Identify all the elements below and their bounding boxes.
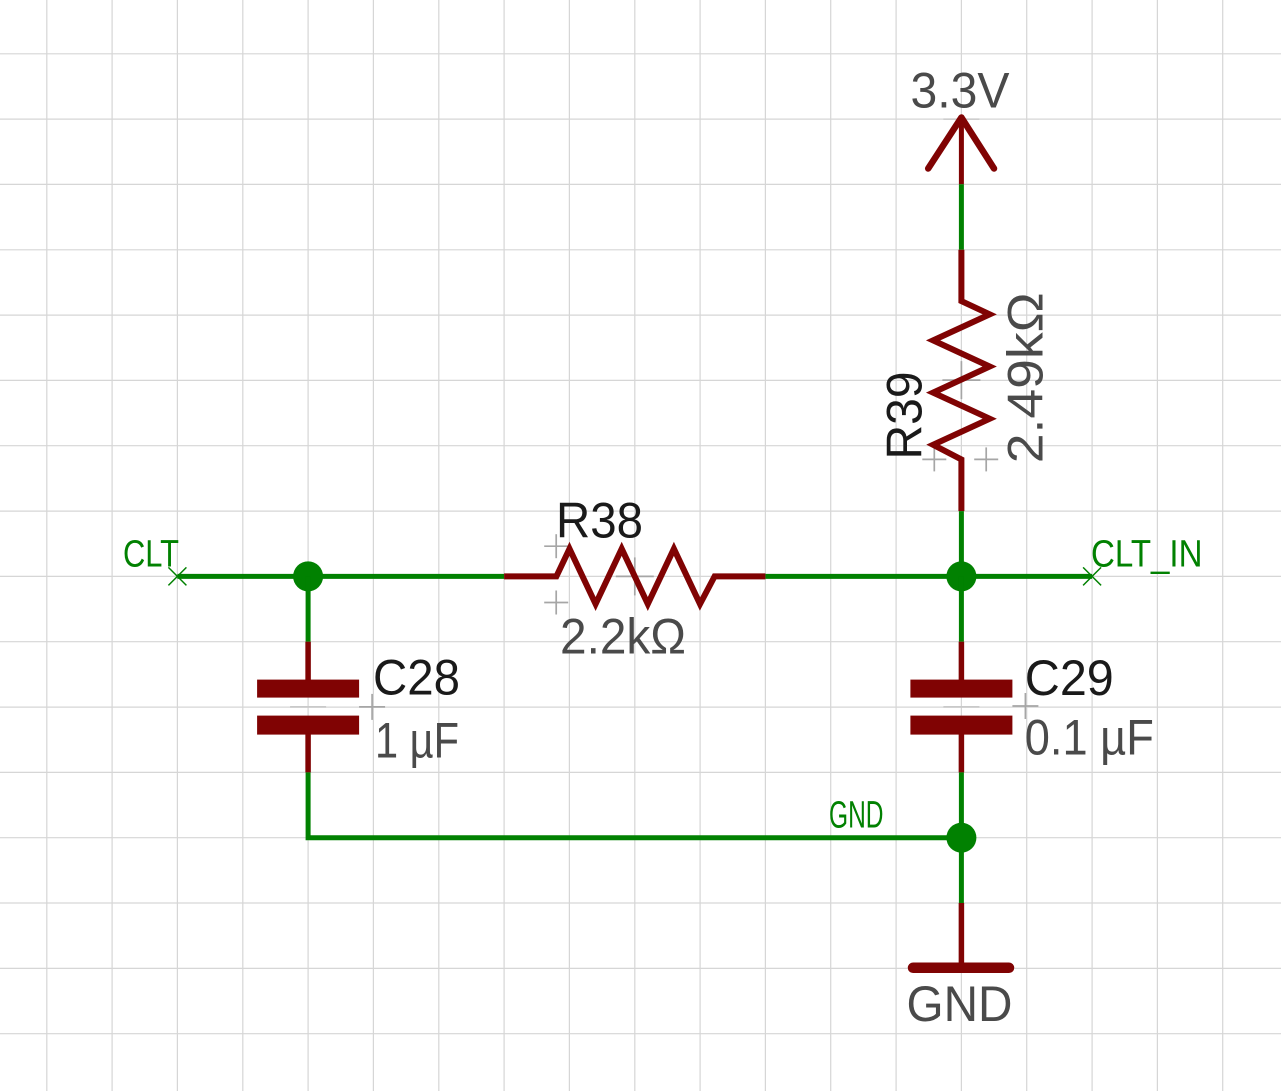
svg-text:GND: GND <box>907 976 1013 1032</box>
svg-text:R39: R39 <box>877 372 933 460</box>
capacitor C29 value label 0.1uF <box>1025 710 1154 766</box>
junction node GND <box>946 823 976 853</box>
wire CLT to R38 <box>177 574 504 579</box>
svg-text:C28: C28 <box>373 650 460 706</box>
capacitor C29 <box>910 680 1012 735</box>
capacitor C28 reference label C28 <box>373 650 460 706</box>
junction node CLT at C28 <box>293 561 323 591</box>
capacitor C28 anchor crosses <box>290 694 385 720</box>
capacitor C28 value label 1uF <box>375 713 459 769</box>
svg-text:C29: C29 <box>1025 650 1114 706</box>
ground symbol value label GND <box>907 976 1013 1032</box>
capacitor C29 reference label C29 <box>1025 650 1114 706</box>
resistor R39 field anchor crosses <box>922 361 998 471</box>
wire R38 to CLT_IN <box>765 574 1092 579</box>
wire CLT node to C28 <box>306 576 311 641</box>
resistor R39 <box>933 250 990 511</box>
svg-text:2.2kΩ: 2.2kΩ <box>560 609 686 665</box>
net label CLT_IN anchor cross <box>1083 567 1101 585</box>
svg-text:1 µF: 1 µF <box>375 713 459 769</box>
capacitor C28 <box>257 680 359 735</box>
svg-text:GND: GND <box>829 795 884 837</box>
capacitor C29 pins <box>959 642 965 773</box>
net label GND <box>829 795 884 837</box>
ground symbol pin <box>959 903 965 964</box>
wire R39 to CLT_IN node <box>959 511 964 576</box>
resistor R38 field anchor crosses <box>544 534 654 614</box>
capacitor C28 pins <box>305 642 311 773</box>
wire C29 to GND junction <box>959 772 964 903</box>
wire 3.3V to R39 <box>959 184 964 250</box>
svg-text:3.3V: 3.3V <box>911 62 1011 118</box>
net label CLT <box>123 534 179 576</box>
svg-text:R38: R38 <box>556 493 643 549</box>
resistor R38 reference label R38 <box>556 493 643 549</box>
net label CLT_IN <box>1091 534 1203 576</box>
resistor R39 reference label R39 <box>877 372 933 460</box>
capacitor C29 anchor crosses <box>943 693 1038 719</box>
ground symbol bar <box>913 963 1009 974</box>
power symbol +3.3V value label 3.3V <box>911 62 1011 118</box>
svg-text:0.1 µF: 0.1 µF <box>1025 710 1154 766</box>
net label CLT anchor cross <box>168 567 186 585</box>
power symbol +3.3V anchor cross <box>943 118 979 120</box>
wire CLT_IN node to C29 <box>959 576 964 641</box>
junction node CLT_IN at C29 <box>946 561 976 591</box>
resistor R38 value label 2.2kOhm <box>560 609 686 665</box>
svg-text:2.49kΩ: 2.49kΩ <box>998 292 1054 463</box>
power symbol +3.3V arrow <box>928 118 994 185</box>
resistor R38 <box>504 549 765 604</box>
resistor R39 value label 2.49kOhm <box>998 292 1054 463</box>
svg-text:CLT_IN: CLT_IN <box>1091 534 1203 576</box>
wire C28 to GND net <box>308 772 961 837</box>
